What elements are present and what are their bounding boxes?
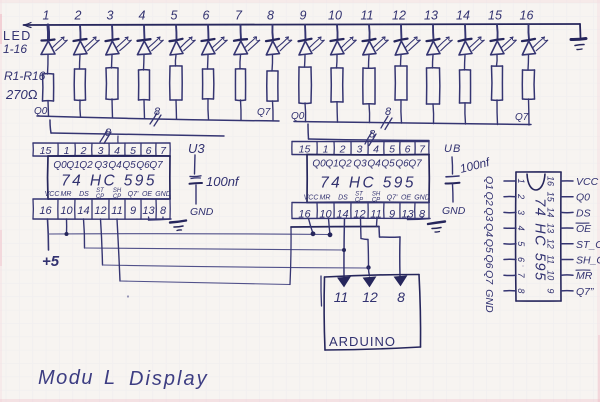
svg-text:R1-R16: R1-R16 <box>4 69 46 83</box>
pinout: left pin labels Q1-Q7 GND <box>483 176 495 313</box>
arrow into Arduino pin 8 <box>395 276 407 286</box>
svg-text:4: 4 <box>373 144 379 156</box>
pin row (bottom) of U1 <box>33 199 170 219</box>
svg-text:Q4: Q4 <box>367 159 381 170</box>
svg-text:UB: UB <box>444 143 461 155</box>
svg-text:SH_CP: SH_CP <box>576 255 600 267</box>
LED D1 <box>41 25 67 55</box>
svg-text:10: 10 <box>319 209 332 221</box>
junction: U1 pin10 on +5 rail <box>65 219 69 236</box>
svg-text:Q7': Q7' <box>387 195 398 202</box>
svg-text:1: 1 <box>323 144 329 156</box>
label: C1 value 100nF <box>206 174 240 189</box>
title: Modul Display <box>38 367 209 390</box>
label: LED number 15 <box>488 9 502 23</box>
stray pen speck <box>127 295 129 297</box>
wire: LED 12 to resistor R12 <box>400 55 403 66</box>
label: +5 supply <box>42 253 60 270</box>
Arduino module box <box>321 275 421 351</box>
pinout: inner pin numbers 1-8 <box>516 178 526 293</box>
ground symbol at right end of top rail <box>571 24 586 50</box>
output labels Q0-Q7 inside U2 <box>312 159 422 170</box>
svg-text:6: 6 <box>405 144 411 156</box>
label: LED number 7 <box>235 9 243 23</box>
label: LED number 14 <box>456 9 470 23</box>
svg-text:8: 8 <box>160 205 167 217</box>
svg-text:6: 6 <box>516 257 526 262</box>
wire: feed line above U1 <box>51 133 224 136</box>
wire: resistor R16 to bus <box>528 99 531 125</box>
wire: resistor R14 to bus <box>464 103 467 124</box>
svg-text:8: 8 <box>516 288 526 293</box>
svg-text:Q3: Q3 <box>353 159 367 170</box>
svg-text:Q2: Q2 <box>79 160 93 171</box>
wire: resistor R7 to bus <box>240 100 243 120</box>
resistor R14 270R <box>460 70 471 103</box>
label: C2 value 100nF <box>458 155 492 176</box>
svg-text:16: 16 <box>546 176 556 186</box>
wire: LED 4 to resistor R4 <box>143 55 146 70</box>
wire: resistor R9 to bus <box>304 103 307 122</box>
wire: LED 11 to resistor R11 <box>368 55 371 68</box>
wire: ST_CP to Arduino pin 12 <box>368 268 369 277</box>
wire: SH_CP down to Arduino pin 8 <box>399 237 401 276</box>
svg-text:9: 9 <box>300 9 307 23</box>
svg-text:Q4: Q4 <box>108 160 122 171</box>
wire: resistor R1 to bus <box>47 101 50 116</box>
svg-text:8: 8 <box>397 289 405 305</box>
LED D4 <box>137 25 163 55</box>
wire: U2 pin11 SH_CP to net <box>376 219 379 227</box>
svg-text:5: 5 <box>171 9 178 23</box>
svg-text:8: 8 <box>267 9 274 23</box>
svg-text:9: 9 <box>546 288 556 293</box>
bus marker 8 on U1 feed <box>100 127 112 144</box>
ground label below C2 <box>442 205 466 217</box>
capacitor C1 100nF <box>190 155 203 204</box>
svg-text:Q1: Q1 <box>483 176 495 190</box>
wire: ST_CP down to junction <box>367 240 370 268</box>
output labels Q0-Q7 inside U1 <box>53 160 163 171</box>
label: LED number 9 <box>300 9 307 23</box>
svg-text:L: L <box>104 367 115 389</box>
wire: left output bus Q0-Q7 <box>37 116 279 121</box>
svg-text:16: 16 <box>520 9 534 23</box>
svg-text:6: 6 <box>203 9 210 23</box>
svg-text:7: 7 <box>235 9 243 23</box>
wire: LED 7 to resistor R7 <box>239 55 242 69</box>
resistor R6 270R <box>203 69 214 99</box>
svg-text:16: 16 <box>298 209 311 221</box>
svg-text:GND: GND <box>414 195 430 202</box>
svg-text:Q4: Q4 <box>483 223 495 237</box>
svg-text:Q0: Q0 <box>576 192 590 204</box>
wire: resistor R6 to bus <box>207 99 210 120</box>
wire: resistor R11 to bus <box>368 104 371 123</box>
svg-text:Q7: Q7 <box>483 270 495 285</box>
wire: LED 5 to resistor R5 <box>174 55 177 66</box>
wire: resistor R2 to bus <box>79 100 82 117</box>
svg-text:74 HC 595: 74 HC 595 <box>61 172 157 189</box>
wire: resistor R3 to bus <box>111 99 114 118</box>
svg-text:Q7”: Q7” <box>576 286 594 298</box>
svg-text:MR: MR <box>576 270 593 282</box>
svg-text:1-16: 1-16 <box>3 42 27 56</box>
wire: right output bus Q0-Q7 <box>294 122 531 125</box>
wire: LED 14 to resistor R14 <box>464 55 467 70</box>
pinout: 74HC595 DIP body <box>516 172 561 301</box>
wire: resistor R10 to bus <box>336 102 339 122</box>
wire: resistor R5 to bus <box>175 100 178 119</box>
pin function labels of U2 <box>304 192 430 204</box>
LED D13 <box>427 25 453 55</box>
wire: resistor R13 to bus <box>432 104 435 124</box>
svg-text:Q6: Q6 <box>136 160 150 171</box>
svg-text:Q7: Q7 <box>149 160 163 171</box>
svg-text:MR: MR <box>61 191 72 198</box>
svg-text:3: 3 <box>516 210 526 215</box>
bus marker 8 on U2 feed <box>365 129 376 146</box>
wire: SH_CP net up <box>290 227 291 285</box>
label: LED number 13 <box>424 9 438 23</box>
wire: LED 9 to resistor R9 <box>304 55 307 67</box>
resistor R8 270R <box>267 71 278 101</box>
svg-text:11: 11 <box>334 289 349 305</box>
svg-text:Q7': Q7' <box>128 191 139 198</box>
wire: ST_CP net to U2/Arduino <box>103 265 368 268</box>
wire: LED 3 to resistor R3 <box>111 55 114 68</box>
svg-text:VCC: VCC <box>45 191 61 198</box>
svg-text:Q0: Q0 <box>53 160 67 171</box>
label: LED number 2 <box>74 9 82 23</box>
svg-text:12: 12 <box>94 205 106 217</box>
svg-text:OE: OE <box>142 191 152 198</box>
node Q0 left bus <box>34 106 48 117</box>
wire: DS net to U2/Arduino <box>85 248 345 250</box>
svg-text:Q1: Q1 <box>66 160 79 171</box>
svg-text:10: 10 <box>60 205 73 217</box>
svg-text:Display: Display <box>129 368 209 390</box>
svg-text:Q0: Q0 <box>34 106 48 117</box>
svg-text:4: 4 <box>516 226 526 231</box>
wire: resistor R15 to bus <box>496 100 499 125</box>
wire: tick feed line to U1 pin4 <box>117 136 119 143</box>
wire: U1 pins 13+8 tie <box>149 217 172 220</box>
wire: U2 pin14 DS to Arduino pin 11 <box>343 219 346 278</box>
wire: feed line above U2 <box>309 139 430 141</box>
svg-text:10: 10 <box>328 9 342 23</box>
svg-text:4: 4 <box>139 9 146 23</box>
svg-text:2: 2 <box>74 9 82 23</box>
capacitor C2 100nF <box>446 157 460 202</box>
pinout: left pins 1-8 <box>504 181 516 291</box>
bus marker 8 right bus <box>381 106 392 130</box>
svg-text:11: 11 <box>111 205 122 217</box>
pin function labels of U1 <box>45 188 171 200</box>
svg-text:74 HC 595: 74 HC 595 <box>320 174 416 191</box>
label: LED range 1-16 <box>3 42 27 56</box>
pin row (top) of U2 <box>292 142 429 155</box>
svg-text:1: 1 <box>43 9 50 23</box>
LED D5 <box>170 25 196 55</box>
LED D2 <box>74 25 100 55</box>
wire: U1 pin16 VCC to +5 <box>48 219 49 250</box>
svg-text:Q2: Q2 <box>483 192 495 206</box>
LED D10 <box>331 25 357 55</box>
wire: top supply rail <box>24 23 581 28</box>
svg-text:Modu: Modu <box>38 367 94 389</box>
label: LED number 16 <box>520 9 534 23</box>
wire: LED 10 to resistor R10 <box>336 55 339 68</box>
stray pen speck 3 <box>522 265 524 267</box>
wire: LED 15 to resistor R15 <box>496 55 499 66</box>
resistor R16 270R <box>522 70 534 99</box>
svg-text:12: 12 <box>362 289 378 305</box>
svg-text:Q3: Q3 <box>483 207 495 221</box>
svg-text:12: 12 <box>392 9 406 23</box>
wire: right bus drop to U2 <box>307 124 310 139</box>
LED D15 <box>491 25 517 55</box>
svg-text:ARDUINO: ARDUINO <box>329 334 396 349</box>
top pin numbers of U2: 15 1 2 3 4 5 6 7 <box>299 144 426 156</box>
svg-text:3: 3 <box>357 144 363 156</box>
svg-text:14: 14 <box>336 209 348 221</box>
resistor R10 270R <box>331 68 343 102</box>
label: LED designators <box>3 29 32 43</box>
wire: U2 pin16 to +5 rail <box>309 219 316 237</box>
part number 74 HC 595 inside U1 <box>61 172 157 189</box>
svg-text:Q7: Q7 <box>515 112 529 123</box>
LED D12 <box>395 25 421 55</box>
pinout: right pin labels <box>576 176 600 298</box>
LED D6 <box>202 25 228 55</box>
wire: +5 rail to U2 <box>49 233 331 236</box>
resistor R3 270R <box>106 68 118 100</box>
svg-text:Q0: Q0 <box>312 159 326 170</box>
junction: ST_CP net <box>366 265 370 269</box>
label: resistor value 270 ohm <box>5 87 38 102</box>
IC body U1 74HC595 <box>48 156 170 199</box>
svg-text:1: 1 <box>516 178 526 183</box>
resistor R12 270R <box>395 66 407 100</box>
svg-text:12: 12 <box>353 209 365 221</box>
LED D14 <box>459 25 485 55</box>
top pin numbers of U1: 15 1 2 3 4 5 6 7 <box>40 145 167 157</box>
svg-text:100nf: 100nf <box>206 174 240 189</box>
pinout: notch <box>527 174 545 191</box>
LED D7 <box>234 25 260 55</box>
resistor R9 270R <box>299 67 312 103</box>
ground label below C1 <box>190 206 214 218</box>
svg-text:GND: GND <box>442 205 466 217</box>
svg-text:13: 13 <box>142 205 155 217</box>
svg-text:Q6: Q6 <box>395 159 409 170</box>
LED D16 <box>522 25 548 55</box>
svg-text:15: 15 <box>488 9 502 23</box>
wire: U2 pin10 to +5 rail <box>328 219 333 238</box>
svg-text:MR: MR <box>320 195 331 202</box>
IC body U2 74HC595 <box>307 155 429 203</box>
label: LED number 11 <box>361 9 374 23</box>
label: LED number 1 <box>43 9 50 23</box>
pinout: part number 74 HC 595 <box>532 198 548 282</box>
resistor R15 270R <box>492 66 503 100</box>
pinout: right pins 16-9 <box>561 181 573 291</box>
bottom pin numbers of U2: 16 10 14 12 11 9 13 8 <box>298 209 426 221</box>
wire: U1 pin14 DS down <box>84 219 85 248</box>
label: ARDUINO <box>329 334 396 349</box>
stray pen speck 2 <box>16 31 18 33</box>
wire: SH_CP net to U2 pin11 <box>291 226 379 229</box>
wire: SH_CP net rightward <box>120 281 290 285</box>
wire: SH_CP jog right <box>380 236 401 238</box>
svg-text:DS: DS <box>79 191 89 198</box>
label: LED number 8 <box>267 9 274 23</box>
label: LED number 5 <box>171 9 178 23</box>
label: LED number 10 <box>328 9 342 23</box>
svg-text:Q0: Q0 <box>291 111 305 122</box>
svg-text:11: 11 <box>361 9 374 23</box>
label: LED number 6 <box>203 9 210 23</box>
wire: resistor R8 to bus <box>272 101 275 121</box>
svg-text:DS: DS <box>576 207 591 219</box>
label: LED number 12 <box>392 9 406 23</box>
svg-text:14: 14 <box>77 205 89 217</box>
label: capacitor designator U3 <box>188 141 205 156</box>
svg-text:3: 3 <box>107 9 114 23</box>
ground symbol at U1 pin 8 <box>170 221 186 231</box>
label: Arduino pin 8 <box>397 289 405 305</box>
svg-text:2: 2 <box>339 144 346 156</box>
wire: U1 pin11 SH_CP down <box>117 219 120 281</box>
part number 74 HC 595 inside U2 <box>320 174 416 191</box>
svg-text:ST_CP: ST_CP <box>576 239 600 251</box>
label: LED number 3 <box>107 9 114 23</box>
label: LED number 4 <box>139 9 146 23</box>
pin row (top) of U1 <box>33 143 170 156</box>
node Q7 left bus <box>257 107 271 118</box>
svg-text:DS: DS <box>338 195 348 202</box>
node Q7 right bus <box>515 112 529 123</box>
svg-text:Q7: Q7 <box>257 107 271 118</box>
junction: DS net at U2 pin14 <box>342 248 346 252</box>
svg-text:2: 2 <box>516 193 526 199</box>
wire: LED 2 to resistor R2 <box>79 55 82 69</box>
resistor R2 270R <box>74 69 85 100</box>
svg-text:GND: GND <box>483 289 495 313</box>
wire: LED 8 to resistor R8 <box>271 55 274 71</box>
resistor R1 270R <box>43 74 54 101</box>
svg-text:74 HC 595: 74 HC 595 <box>532 198 548 282</box>
bus marker 8 left bus <box>150 106 161 126</box>
label: UB supply <box>444 143 461 155</box>
svg-text:9: 9 <box>130 205 136 217</box>
wire: left bus drop to U1 <box>50 120 51 133</box>
wire: resistor R12 to bus <box>400 100 403 123</box>
resistor R5 270R <box>170 66 183 100</box>
svg-text:Q6: Q6 <box>483 254 495 268</box>
wire: LED 1 to resistor R1 <box>47 55 50 74</box>
svg-text:11: 11 <box>370 209 381 221</box>
svg-text:Q5: Q5 <box>122 160 136 171</box>
LED D11 <box>363 25 389 55</box>
label: resistor designators R1-R16 <box>4 69 46 83</box>
svg-text:Q2: Q2 <box>338 159 352 170</box>
svg-text:VCC: VCC <box>576 176 599 188</box>
wire: LED 16 to resistor R16 <box>527 55 530 70</box>
svg-text:Q3: Q3 <box>94 160 108 171</box>
svg-text:Q7: Q7 <box>408 159 422 170</box>
ground symbol at U2 pin 8 <box>428 222 445 233</box>
resistor R7 270R <box>235 69 245 101</box>
wire: U2 pin12 ST_CP down <box>360 219 363 239</box>
svg-text:16: 16 <box>39 205 52 217</box>
LED D3 <box>106 25 132 55</box>
svg-text:Q5: Q5 <box>483 239 495 253</box>
wire: SH_CP jog down <box>378 227 381 238</box>
wire: U1 pin12 ST_CP down <box>101 219 103 265</box>
wire: LED 13 to resistor R13 <box>431 55 434 68</box>
svg-text:14: 14 <box>456 9 470 23</box>
svg-text:OE: OE <box>401 195 411 202</box>
wire: U2 pins 13+8 tie <box>408 217 431 220</box>
pin row (bottom) of U2 <box>292 203 429 219</box>
svg-text:GND: GND <box>190 206 214 218</box>
wire: U2 pin12 jog right <box>361 239 368 240</box>
LED D8 <box>266 25 292 55</box>
resistor R13 270R <box>427 68 440 104</box>
wire: resistor R4 to bus <box>143 100 146 118</box>
svg-text:270Ω: 270Ω <box>5 87 38 102</box>
svg-text:VCC: VCC <box>304 195 320 202</box>
svg-text:13: 13 <box>424 9 438 23</box>
LED D9 <box>299 25 325 55</box>
label: Arduino pin 12 <box>362 289 378 305</box>
svg-text:U3: U3 <box>188 141 205 156</box>
svg-text:+5: +5 <box>42 253 60 270</box>
node Q0 right bus <box>291 111 305 122</box>
wire: LED 6 to resistor R6 <box>207 55 210 69</box>
bottom pin numbers of U1: 16 10 14 12 11 9 13 8 <box>39 205 167 217</box>
svg-text:5: 5 <box>389 144 395 156</box>
resistor R11 270R <box>363 68 375 104</box>
svg-text:Q5: Q5 <box>381 159 395 170</box>
svg-text:Q1: Q1 <box>325 159 338 170</box>
svg-text:9: 9 <box>389 209 395 221</box>
resistor R4 270R <box>139 70 150 100</box>
pinout: inner pin numbers 16-9 <box>546 176 556 293</box>
arrow into Arduino pin 11 <box>338 277 350 287</box>
arrow into Arduino pin 12 <box>364 277 376 287</box>
svg-text:OE: OE <box>576 223 592 235</box>
svg-text:GND: GND <box>155 191 171 198</box>
label: Arduino pin 11 <box>334 289 349 305</box>
